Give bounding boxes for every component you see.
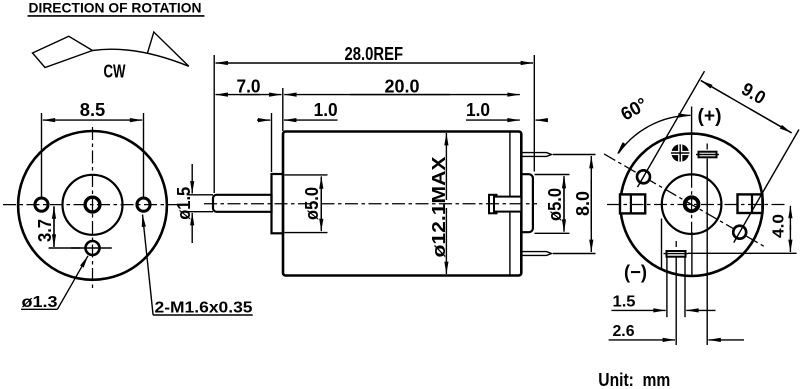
- svg-text:8.0: 8.0: [572, 191, 593, 216]
- svg-text:ø12.1MAX: ø12.1MAX: [428, 156, 449, 258]
- end bell seam: [509, 133, 511, 275]
- svg-text:2.6: 2.6: [613, 323, 635, 340]
- label leader ø1.3: [21, 256, 88, 311]
- front view outer circle: [18, 131, 167, 280]
- CW rotation arrow: [33, 32, 189, 68]
- label leader 2-M1.6x0.35: [143, 215, 253, 317]
- front left mount hole: [35, 198, 48, 211]
- rear internal line left: [661, 219, 663, 269]
- rear vertical line above boss: [691, 134, 693, 175]
- front horizontal centerline: [3, 204, 177, 206]
- dimension 1.0 left: [257, 99, 338, 172]
- dimension 8.0: [553, 155, 596, 254]
- svg-text:20.0: 20.0: [385, 76, 420, 97]
- svg-text:28.0REF: 28.0REF: [345, 43, 404, 64]
- dimension ø12.1MAX: [428, 133, 449, 274]
- rear boss circle: [662, 174, 722, 234]
- svg-text:1.0: 1.0: [466, 99, 490, 120]
- svg-text:8.5: 8.5: [80, 99, 106, 120]
- svg-text:DIRECTION OF ROTATION: DIRECTION OF ROTATION: [29, 0, 202, 16]
- shaft: [213, 195, 272, 212]
- front shaft hole ring: [85, 197, 100, 212]
- title DIRECTION OF ROTATION: [28, 0, 205, 16]
- dimension 3.7: [34, 206, 80, 248]
- rear internal line center: [691, 232, 693, 276]
- svg-text:Unit: mm: Unit: mm: [598, 370, 670, 389]
- svg-text:ø5.0: ø5.0: [544, 188, 565, 221]
- rear bushing cap: [521, 174, 533, 232]
- rear vertical centerline dashes: [691, 175, 693, 235]
- top terminal pin: [521, 153, 551, 157]
- plus terminal slot: [696, 144, 719, 346]
- rear shaft ring: [685, 197, 699, 211]
- minus terminal slot: [664, 241, 689, 345]
- svg-text:(+): (+): [698, 106, 722, 127]
- alignment mark circle-cross: [670, 144, 690, 162]
- rear hole upper-left: [637, 170, 650, 183]
- svg-text:ø5.0: ø5.0: [301, 187, 322, 220]
- rear outer circle: [620, 134, 762, 276]
- front right mount hole: [137, 198, 150, 211]
- front bushing: [272, 174, 284, 233]
- bottom terminal pin: [521, 252, 551, 256]
- front bottom hole cross line: [71, 247, 112, 249]
- dimension 28.0REF: [214, 43, 534, 193]
- dimension 7.0: [216, 76, 283, 131]
- svg-text:(−): (−): [624, 262, 647, 283]
- rear shaft stub bearing: [489, 195, 497, 214]
- rear diagonal centerline 30deg: [604, 154, 766, 248]
- svg-text:4.0: 4.0: [771, 214, 788, 238]
- svg-text:2-M1.6x0.35: 2-M1.6x0.35: [155, 299, 253, 316]
- svg-text:1.5: 1.5: [613, 293, 636, 310]
- rear right tab: [738, 194, 763, 213]
- svg-text:ø1.3: ø1.3: [22, 294, 58, 311]
- dimension 9.0: [638, 71, 800, 243]
- svg-text:7.0: 7.0: [237, 76, 261, 97]
- svg-text:ø1.5: ø1.5: [173, 187, 194, 220]
- motor body: [283, 132, 521, 276]
- rear left tab: [620, 194, 645, 213]
- dimension 1.0 right: [466, 99, 546, 120]
- front vertical centerline: [92, 127, 94, 291]
- dimension 2.6: [609, 323, 744, 340]
- dimension ø5.0 front: [285, 175, 328, 233]
- svg-text:CW: CW: [104, 61, 126, 82]
- rear horizontal centerline: [607, 204, 787, 206]
- svg-text:1.0: 1.0: [314, 99, 338, 120]
- dimension ø5.0 rear: [535, 175, 570, 234]
- 60 deg vertex ray: [691, 107, 693, 134]
- front boss circle: [63, 175, 123, 235]
- svg-text:3.7: 3.7: [34, 219, 55, 242]
- front bottom hole: [86, 241, 100, 255]
- side centerline: [204, 203, 537, 205]
- dimension 4.0: [688, 206, 797, 254]
- dimension 8.5: [42, 99, 144, 197]
- dimension 1.5: [611, 293, 715, 310]
- dimension 20.0: [284, 76, 520, 97]
- dimension ø1.5 shaft: [173, 164, 213, 243]
- dimension arc 60deg: [617, 93, 691, 154]
- rear shaft stub: [494, 197, 521, 212]
- rear hole lower-right: [733, 226, 746, 239]
